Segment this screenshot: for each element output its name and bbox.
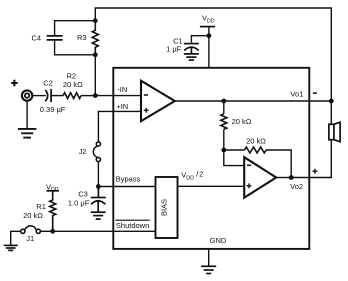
svg-text:Bypass: Bypass [116, 174, 141, 183]
wire fb node to U1B minus input [224, 150, 244, 166]
wire VDD stem to box [208, 27, 210, 68]
ground (C3) [91, 212, 106, 219]
ground (input jack) [18, 129, 37, 138]
shutdown overline [115, 219, 149, 221]
resistor 20k fb horizontal [245, 147, 267, 153]
ground (GND pin) [201, 266, 216, 273]
speaker [329, 122, 340, 142]
svg-text:C3: C3 [78, 189, 88, 198]
wire J1 to ground [11, 231, 21, 244]
wire Bypass [98, 186, 155, 188]
op-amp U1B [244, 157, 276, 198]
input plus mark [11, 80, 17, 86]
svg-text:J1: J1 [26, 234, 34, 243]
wire Vo2 output [276, 177, 291, 179]
svg-text:C2: C2 [43, 78, 53, 87]
wire Shutdown [53, 230, 156, 232]
svg-text:R3: R3 [77, 33, 87, 42]
wire fb resistor bottom stem [223, 129, 225, 150]
wire -IN [95, 95, 141, 97]
node dot R3/C4 bottom [93, 52, 98, 57]
wire R3 bottom to -IN node [94, 55, 96, 96]
svg-text:20 kΩ: 20 kΩ [246, 136, 266, 145]
wire speaker bottom to Vo2 net [291, 140, 331, 178]
node dot Vo2 [289, 175, 294, 180]
svg-text:0.39 μF: 0.39 μF [40, 105, 66, 114]
jumper J2 [96, 142, 100, 146]
resistor R2 [63, 93, 81, 99]
capacitor C4 [47, 36, 63, 40]
wire right rail to speaker top [330, 101, 332, 124]
node dot shutdown [50, 229, 55, 234]
node dot bypass [96, 184, 101, 189]
capacitor C3 [91, 187, 106, 213]
node dot fb mid [221, 148, 226, 153]
svg-text:C4: C4 [32, 33, 42, 42]
wire C4 bottom branch [55, 40, 96, 55]
wire jack ground stem [26, 101, 28, 128]
svg-text:20 kΩ: 20 kΩ [23, 211, 43, 220]
jumper J1 [21, 229, 25, 233]
op-amp U1A [141, 81, 175, 121]
wire GND pin stem [208, 249, 210, 266]
svg-text:J2: J2 [79, 147, 87, 156]
resistor R1 [50, 191, 56, 232]
node dot VDD/C1 [207, 33, 212, 38]
svg-text:Vo2: Vo2 [290, 182, 303, 191]
capacitor C1 [184, 44, 199, 54]
svg-text:20 kΩ: 20 kΩ [63, 80, 83, 89]
wire fb node to horizontal resistor [224, 149, 245, 151]
speaker plus mark [312, 169, 317, 174]
wire J2 to bypass node [97, 162, 99, 187]
ground (J1) [4, 245, 18, 250]
capacitor C2 [45, 89, 51, 102]
IC box U1 [113, 68, 309, 249]
VDD bar (R1) [47, 190, 59, 192]
resistor 20k fb vertical [221, 114, 227, 130]
ground (C1) [184, 54, 199, 60]
node dot right rail Vo1 [329, 99, 334, 104]
svg-text:20 kΩ: 20 kΩ [232, 117, 252, 126]
speaker minus mark [313, 92, 317, 94]
wire C2 to R2 [51, 95, 63, 97]
node dot Vo1/fb [221, 99, 226, 104]
svg-text:GND: GND [210, 236, 227, 245]
svg-text:R1: R1 [36, 202, 46, 211]
svg-text:1 μF: 1 μF [166, 44, 182, 53]
svg-text:1.0 μF: 1.0 μF [68, 199, 90, 208]
U1A plus mark [144, 108, 149, 113]
BIAS block [156, 177, 178, 238]
node dot R3/C4 top [93, 18, 98, 23]
wire horizontal resistor to Vo2 node [266, 150, 291, 178]
wire Vo1 output [175, 100, 331, 102]
svg-text:BIAS: BIAS [160, 199, 169, 216]
svg-text:Shutdown: Shutdown [116, 221, 149, 230]
resistor R3 [92, 21, 98, 55]
input jack [22, 90, 32, 100]
node dot -IN [93, 93, 98, 98]
wire fb resistor top stem [223, 101, 225, 114]
svg-text:-IN: -IN [117, 85, 127, 94]
U1B minus mark [247, 164, 251, 166]
wire jack to C2 [32, 95, 46, 97]
svg-text:+IN: +IN [116, 102, 128, 111]
wire +IN [98, 111, 141, 141]
wire J1 to shutdown node [40, 230, 52, 232]
wire VDD to C1 [191, 36, 209, 43]
U1A minus mark [144, 94, 148, 96]
wire feedback top rail [95, 8, 331, 100]
wire VDD/2 to op-amp U1B [178, 185, 245, 187]
VDD bar (top) [200, 26, 215, 28]
wire C4 top branch [55, 21, 96, 36]
wire R2 to -IN node [81, 95, 95, 97]
svg-text:Vo1: Vo1 [290, 89, 303, 98]
U1B plus mark [247, 183, 252, 188]
